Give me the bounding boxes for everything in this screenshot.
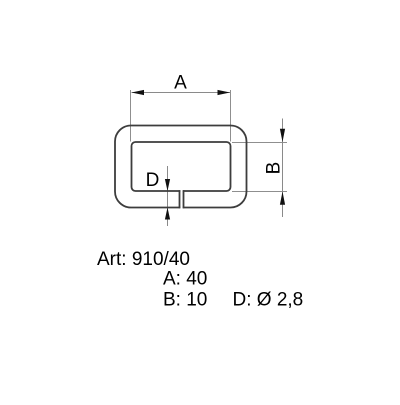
dimension D arrowhead top bbox=[165, 179, 170, 191]
dimension A line bbox=[132, 92, 231, 94]
dimension A arrowhead right bbox=[218, 90, 231, 95]
dimension A extension line left bbox=[130, 90, 132, 142]
svg-text:Art: 910/40: Art: 910/40 bbox=[97, 249, 190, 270]
ring inner contour bbox=[132, 142, 231, 191]
dimension D arrowhead bottom bbox=[165, 208, 170, 220]
svg-text:B: B bbox=[264, 162, 285, 175]
dimension A extension line right bbox=[230, 90, 232, 142]
dimension B line bbox=[282, 119, 284, 218]
svg-text:D: Ø 2,8: D: Ø 2,8 bbox=[233, 290, 304, 311]
svg-text:D: D bbox=[146, 170, 160, 191]
gap cap left bbox=[179, 190, 181, 208]
svg-text:B: 10: B: 10 bbox=[163, 290, 207, 311]
dimension B extension line top bbox=[232, 142, 287, 144]
dimension B arrowhead bottom bbox=[280, 192, 285, 205]
svg-text:A: A bbox=[174, 73, 187, 94]
gap cap right bbox=[183, 190, 185, 208]
svg-text:A: 40: A: 40 bbox=[163, 269, 207, 290]
dimension D line bbox=[167, 166, 169, 226]
dimension B extension line bottom bbox=[232, 191, 287, 193]
gap eraser bbox=[180, 189, 183, 209]
dimension A arrowhead left bbox=[132, 90, 145, 95]
ring outer contour bbox=[115, 126, 247, 208]
dimension B arrowhead top bbox=[280, 129, 285, 142]
